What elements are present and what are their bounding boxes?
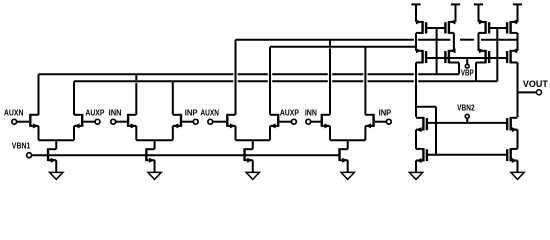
svg-text:AUXN: AUXN	[200, 109, 219, 118]
svg-text:AUXN: AUXN	[4, 109, 24, 118]
svg-text:VBN2: VBN2	[457, 104, 475, 113]
svg-text:INN: INN	[109, 109, 122, 118]
svg-text:INP: INP	[185, 109, 198, 118]
svg-text:VBP: VBP	[461, 68, 474, 77]
svg-text:AUXP: AUXP	[85, 109, 104, 118]
svg-text:INN: INN	[305, 109, 317, 118]
svg-text:AUXP: AUXP	[280, 109, 299, 118]
svg-text:VOUT: VOUT	[523, 79, 548, 89]
svg-text:INP: INP	[379, 109, 392, 118]
svg-text:VBN1: VBN1	[12, 141, 31, 150]
